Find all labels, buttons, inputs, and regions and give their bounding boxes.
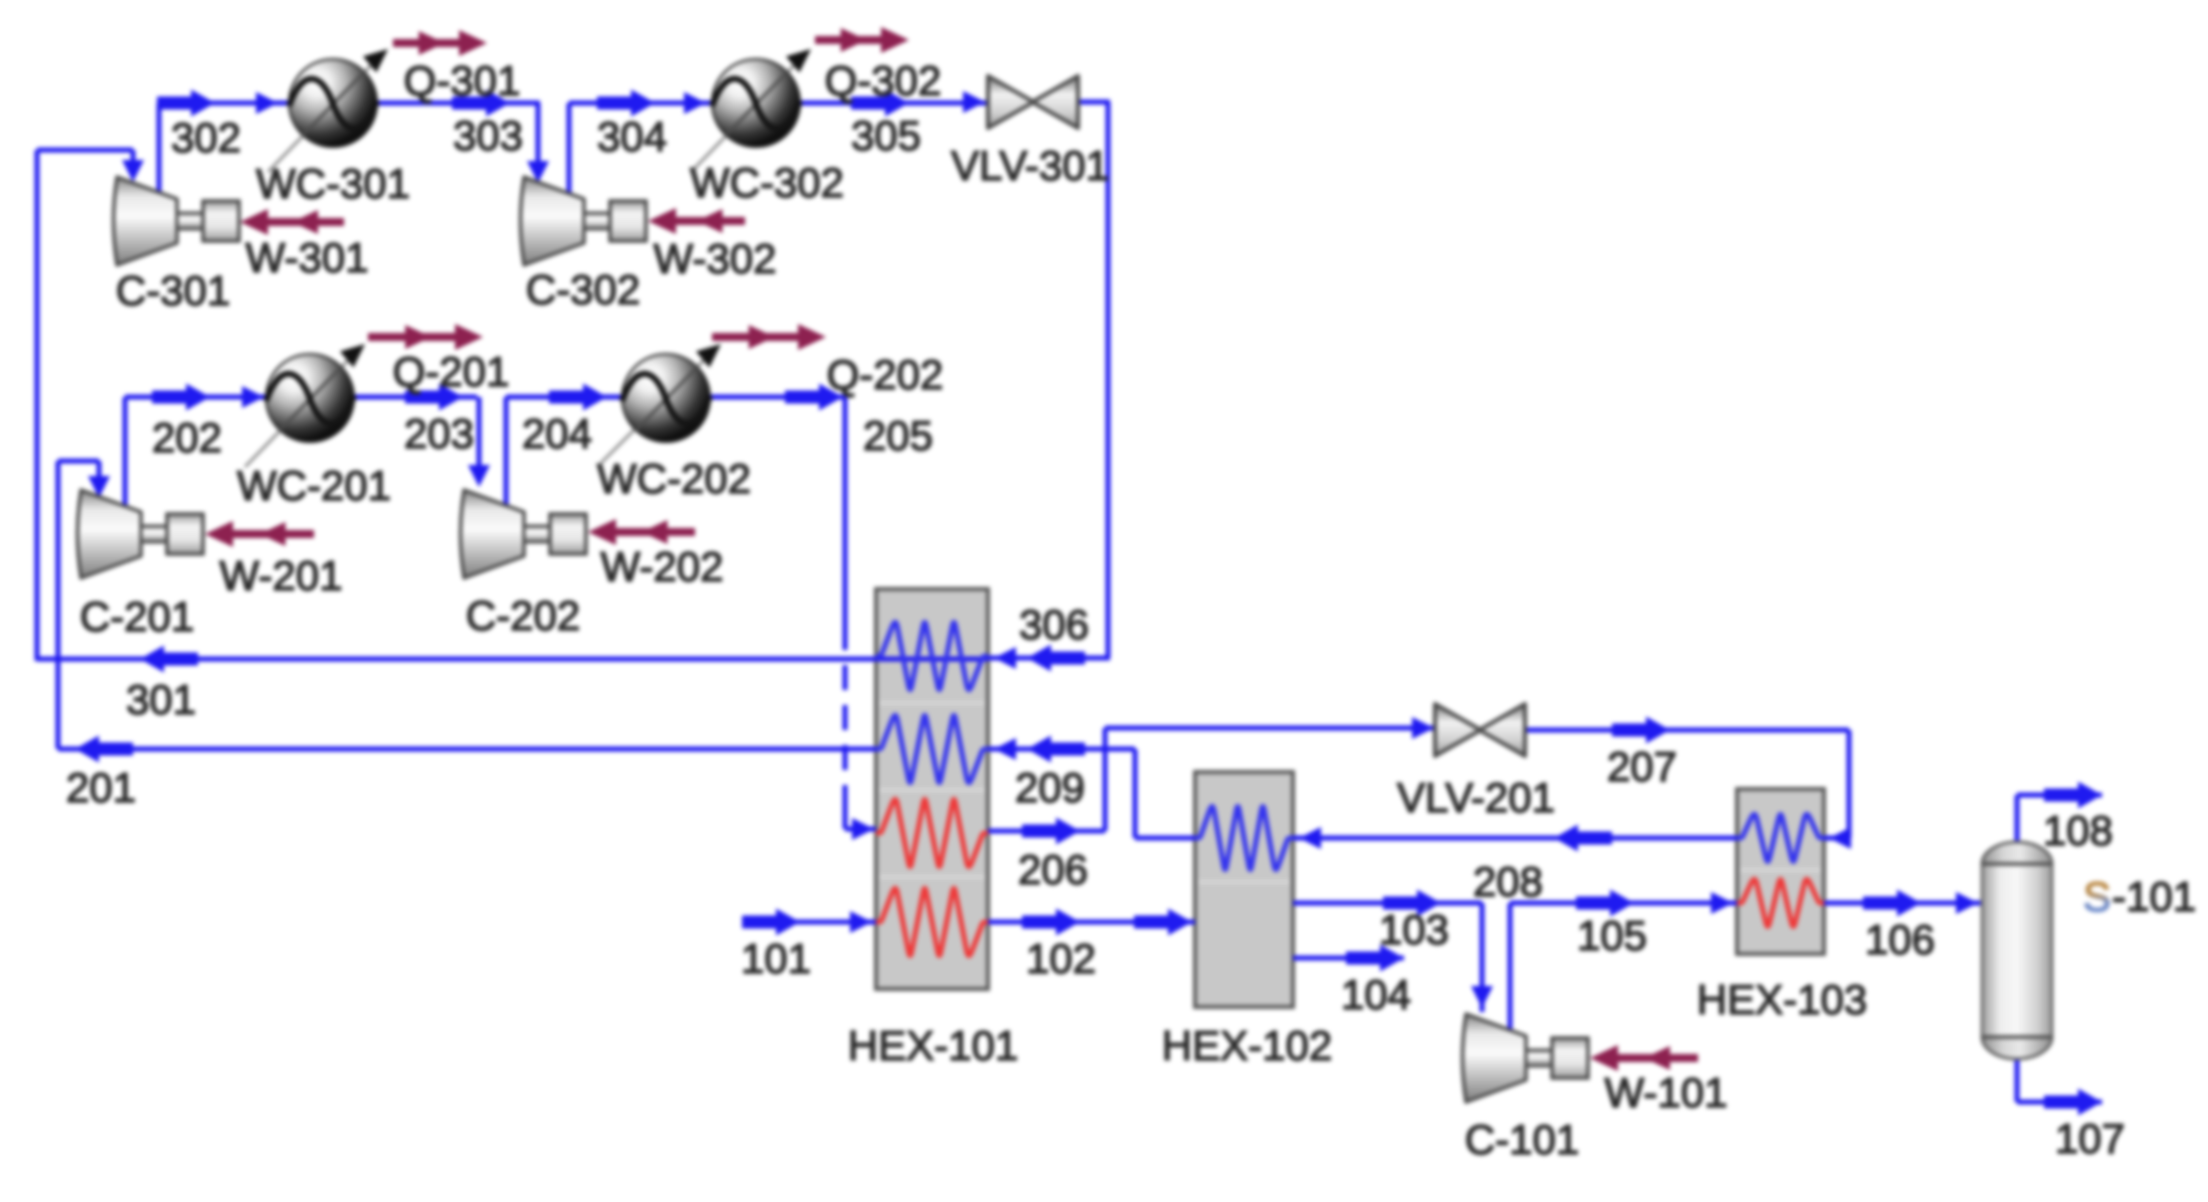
svg-text:104: 104: [1341, 971, 1411, 1018]
svg-text:Q-202: Q-202: [827, 351, 944, 398]
svg-text:W-201: W-201: [220, 552, 343, 599]
svg-text:S: S: [2083, 873, 2111, 920]
svg-text:105: 105: [1577, 912, 1647, 959]
svg-text:WC-202: WC-202: [597, 455, 751, 502]
svg-text:206: 206: [1018, 846, 1088, 893]
svg-text:304: 304: [597, 113, 667, 160]
svg-text:WC-201: WC-201: [237, 462, 391, 509]
svg-text:C-101: C-101: [1465, 1116, 1579, 1163]
svg-text:103: 103: [1379, 906, 1449, 953]
svg-text:302: 302: [171, 114, 241, 161]
svg-text:W-101: W-101: [1605, 1069, 1728, 1116]
svg-text:VLV-201: VLV-201: [1397, 774, 1555, 821]
svg-text:WC-302: WC-302: [690, 159, 844, 206]
svg-text:101: 101: [741, 935, 811, 982]
svg-text:102: 102: [1026, 935, 1096, 982]
svg-text:202: 202: [152, 414, 222, 461]
svg-text:W-301: W-301: [246, 234, 369, 281]
svg-text:C-302: C-302: [526, 266, 640, 313]
svg-text:W-202: W-202: [601, 543, 724, 590]
svg-text:Q-302: Q-302: [825, 57, 942, 104]
svg-text:108: 108: [2043, 807, 2113, 854]
svg-text:107: 107: [2055, 1115, 2125, 1162]
svg-text:201: 201: [66, 764, 136, 811]
svg-text:306: 306: [1019, 601, 1089, 648]
svg-text:HEX-102: HEX-102: [1162, 1022, 1332, 1069]
svg-text:Q-301: Q-301: [404, 57, 521, 104]
svg-text:C-301: C-301: [116, 267, 230, 314]
svg-text:204: 204: [522, 410, 592, 457]
svg-text:-101: -101: [2112, 873, 2196, 920]
svg-text:205: 205: [863, 412, 933, 459]
svg-text:W-302: W-302: [654, 235, 777, 282]
svg-text:HEX-101: HEX-101: [848, 1022, 1018, 1069]
svg-text:305: 305: [851, 112, 921, 159]
svg-text:HEX-103: HEX-103: [1697, 976, 1867, 1023]
svg-text:301: 301: [126, 676, 196, 723]
svg-text:208: 208: [1473, 858, 1543, 905]
svg-text:106: 106: [1865, 916, 1935, 963]
svg-text:207: 207: [1607, 743, 1677, 790]
svg-text:209: 209: [1015, 764, 1085, 811]
svg-text:303: 303: [453, 112, 523, 159]
svg-text:203: 203: [404, 410, 474, 457]
svg-text:Q-201: Q-201: [393, 348, 510, 395]
svg-text:WC-301: WC-301: [256, 160, 410, 207]
svg-text:C-202: C-202: [466, 592, 580, 639]
svg-text:C-201: C-201: [80, 593, 194, 640]
svg-text:VLV-301: VLV-301: [951, 142, 1109, 189]
